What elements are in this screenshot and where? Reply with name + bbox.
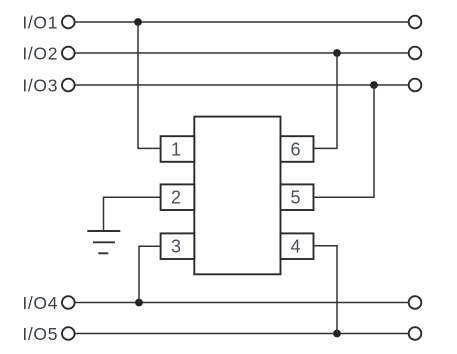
wire net I/O4 <box>75 302 408 304</box>
junction on I/O3 <box>370 81 378 89</box>
terminal I/O1 left <box>62 16 75 29</box>
terminal I/O3 right <box>409 79 422 92</box>
wire pin 6 to I/O2 <box>314 53 338 148</box>
junction on I/O1 <box>134 18 142 26</box>
wire pin 4 to I/O5 <box>314 246 338 334</box>
ground <box>87 231 120 253</box>
svg-text:1: 1 <box>171 140 181 160</box>
svg-text:3: 3 <box>171 237 181 257</box>
svg-text:I/O3: I/O3 <box>22 75 58 95</box>
wire net I/O2 <box>75 52 408 54</box>
wire net I/O1 <box>75 21 408 23</box>
svg-text:I/O5: I/O5 <box>22 324 58 344</box>
junction on I/O4 <box>135 299 143 307</box>
wire I/O1 to pin 1 <box>138 22 161 148</box>
svg-text:I/O1: I/O1 <box>22 12 58 32</box>
svg-text:I/O2: I/O2 <box>22 43 58 63</box>
terminal I/O3 left <box>62 79 75 92</box>
terminal I/O1 right <box>409 16 422 29</box>
wire pin 3 to I/O4 <box>139 246 161 302</box>
junction on I/O5 <box>333 330 341 338</box>
terminal I/O4 left <box>62 296 75 309</box>
svg-text:5: 5 <box>290 188 300 208</box>
terminal I/O5 right <box>409 327 422 340</box>
wire net I/O5 <box>75 333 408 335</box>
pin 1 <box>161 136 195 162</box>
pin 2 <box>161 184 195 210</box>
svg-text:2: 2 <box>171 188 181 208</box>
pin 5 <box>281 184 314 210</box>
svg-text:I/O4: I/O4 <box>22 293 58 313</box>
svg-text:6: 6 <box>290 140 300 160</box>
terminal I/O2 left <box>62 47 75 60</box>
wire net I/O3 <box>75 84 408 86</box>
pin 4 <box>281 233 314 259</box>
pin 3 <box>161 233 195 259</box>
terminal I/O5 left <box>62 327 75 340</box>
junction on I/O2 <box>333 49 341 57</box>
terminal I/O2 right <box>409 47 422 60</box>
pin 6 <box>281 136 314 162</box>
terminal I/O4 right <box>409 296 422 309</box>
wire pin 5 to I/O3 <box>314 85 375 197</box>
wire pin 2 to ground <box>104 197 161 231</box>
svg-text:4: 4 <box>290 237 300 257</box>
IC U1 body <box>194 117 280 275</box>
